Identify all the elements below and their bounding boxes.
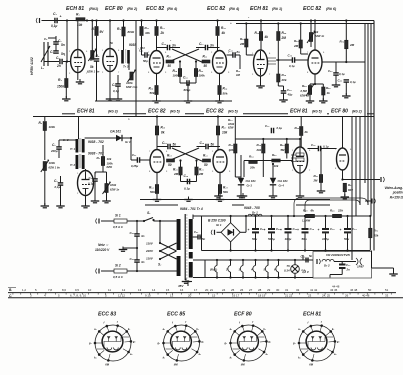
svg-text:32: 32 [296,288,300,292]
svg-text:50: 50 [368,288,372,292]
svg-text:44-48: 44-48 [332,285,340,289]
svg-text:26: 26 [240,288,244,292]
svg-text:50k: 50k [150,91,155,95]
svg-text:5n: 5n [202,237,206,241]
svg-text:200μ: 200μ [50,149,58,153]
svg-text:ECC 82: ECC 82 [146,6,164,12]
svg-text:g₂: g₂ [200,340,204,343]
svg-text:R₂₁: R₂₁ [199,168,204,172]
svg-text:R₁₉: R₁₉ [173,69,178,73]
svg-text:B 250 C100: B 250 C100 [208,219,226,223]
svg-text:2M: 2M [293,44,299,48]
svg-text:6ZW 1 lin: 6ZW 1 lin [87,70,100,74]
svg-text:OA 161: OA 161 [278,179,289,183]
svg-text:3n: 3n [141,234,145,238]
svg-text:800: 800 [348,188,353,192]
svg-text:15: 15 [166,288,170,292]
svg-text:50μ: 50μ [302,237,307,241]
svg-text:0,1μ: 0,1μ [184,187,190,191]
svg-text:10k: 10k [274,164,279,168]
svg-text:R₂₁: R₂₁ [203,55,208,59]
svg-text:28: 28 [258,288,262,292]
svg-text:VR 2000E01TVB: VR 2000E01TVB [326,253,350,257]
svg-text:1M: 1M [236,73,241,77]
svg-text:23: 23 [308,293,312,297]
svg-text:0,1μ: 0,1μ [277,126,283,130]
svg-text:15: 15 [212,293,216,297]
svg-text:6ZW 1n: 6ZW 1n [300,94,310,98]
svg-text:B.: B. [9,288,12,292]
svg-text:24: 24 [222,288,226,292]
svg-text:2: 2 [225,268,228,272]
svg-text:(Rö1): (Rö1) [210,268,217,272]
svg-text:1k: 1k [327,91,331,95]
svg-text:110/220 V: 110/220 V [95,248,110,252]
svg-text:a₁: a₁ [230,328,232,331]
svg-text:(Rö1): (Rö1) [89,7,99,11]
svg-text:17: 17 [194,288,198,292]
svg-text:40μ: 40μ [287,93,293,97]
svg-text:R₁₅: R₁₅ [161,126,166,130]
svg-text:R₄₈: R₄₈ [295,126,300,130]
svg-text:a₂: a₂ [130,353,132,356]
svg-text:R₂₄: R₂₄ [223,87,229,91]
svg-text:100k: 100k [110,183,117,187]
svg-text:ECH 81: ECH 81 [77,109,95,115]
svg-text:220V: 220V [145,249,154,253]
svg-text:ECC 85: ECC 85 [167,312,185,318]
svg-text:C₃₈: C₃₈ [352,227,357,231]
svg-text:13: 13 [138,288,142,292]
svg-text:R₂₅: R₂₅ [223,186,229,190]
svg-text:10k: 10k [107,157,112,161]
svg-text:50μ: 50μ [252,237,257,241]
svg-text:R₂₀: R₂₀ [173,168,179,172]
svg-text:g₁: g₁ [157,342,161,345]
svg-text:40-48: 40-48 [362,293,370,297]
svg-text:16: 16 [180,288,184,292]
svg-text:50k: 50k [223,92,228,96]
svg-text:OA 161: OA 161 [110,130,121,134]
svg-text:0,34: 0,34 [284,269,290,273]
svg-text:a₂: a₂ [334,353,336,356]
svg-text:25: 25 [231,288,235,292]
svg-text:27: 27 [249,288,253,292]
svg-text:Gr 1: Gr 1 [125,140,131,144]
svg-text:800k: 800k [128,30,135,34]
svg-text:6ZW 1n: 6ZW 1n [315,34,325,38]
svg-text:Si 1: Si 1 [115,214,121,218]
svg-text:ECH 81: ECH 81 [303,312,321,318]
svg-text:6ZW 1 lin: 6ZW 1 lin [49,166,61,170]
svg-text:100k: 100k [49,125,56,129]
svg-text:0,1μ: 0,1μ [350,80,356,84]
svg-text:Tr 1: Tr 1 [70,147,76,151]
svg-text:11: 11 [108,288,111,292]
svg-text:a₁: a₁ [94,328,96,331]
svg-text:k₁: k₁ [298,355,300,359]
svg-text:Netz ∼: Netz ∼ [98,243,109,247]
svg-text:1R67: 1R67 [357,265,364,269]
svg-text:0,5 A tr: 0,5 A tr [113,275,124,279]
svg-text:R₂₃: R₂₃ [199,69,205,73]
svg-text:51: 51 [385,288,389,292]
svg-text:3n: 3n [141,260,145,264]
svg-text:C₁₃: C₁₃ [162,42,167,46]
svg-text:1k: 1k [315,30,319,34]
svg-text:30k: 30k [145,31,150,35]
svg-text:5k: 5k [90,65,94,69]
svg-text:R₁₈: R₁₈ [167,154,172,158]
svg-text:+: + [280,228,282,232]
svg-text:(Rö 4): (Rö 4) [229,7,240,11]
svg-text:9038 - 703: 9038 - 703 [88,152,104,156]
svg-text:g₁: g₁ [224,342,228,345]
svg-text:26: 26 [345,293,349,297]
svg-text:(Rö 4): (Rö 4) [167,7,178,11]
svg-text:45V: 45V [177,284,184,288]
svg-text:6ZW 1n: 6ZW 1n [110,188,120,192]
svg-text:0,25μ: 0,25μ [131,164,138,168]
svg-text:9 10: 9 10 [145,293,151,297]
svg-text:4: 4 [250,268,253,272]
svg-text:4k: 4k [264,35,269,39]
svg-text:C₁₄: C₁₄ [162,141,167,145]
svg-text:Gr 3: Gr 3 [247,184,253,188]
svg-text:(Rö 2): (Rö 2) [127,7,138,11]
svg-text:8n: 8n [237,50,241,54]
svg-text:(Rö 5): (Rö 5) [170,110,180,114]
svg-text:9,5: 9,5 [75,288,79,292]
svg-text:C.: C. [9,294,12,298]
svg-text:C₃₄: C₃₄ [310,227,315,231]
svg-text:a₁: a₁ [163,328,165,331]
svg-text:7,8: 7,8 [48,288,52,292]
svg-text:C₄₁: C₄₁ [130,231,134,235]
svg-text:C₁₉: C₁₉ [183,76,188,80]
svg-text:2k: 2k [160,31,165,35]
svg-text:12: 12 [122,288,126,292]
svg-text:8,6: 8,6 [62,288,66,292]
svg-text:Gr 4: Gr 4 [279,184,285,188]
svg-text:R₃₄: R₃₄ [282,31,288,35]
svg-text:3n: 3n [172,44,176,48]
svg-text:Tr 2: Tr 2 [70,163,76,167]
svg-text:1,5/6W: 1,5/6W [302,219,311,223]
svg-text:50p: 50p [143,59,148,63]
svg-text:1,2: 1,2 [22,288,26,292]
svg-text:(Rö 5): (Rö 5) [228,110,238,114]
svg-text:C₂₆: C₂₆ [311,143,316,147]
svg-text:4k: 4k [221,31,226,35]
svg-text:k₂: k₂ [128,327,130,331]
svg-text:41 42: 41 42 [310,288,318,292]
svg-text:R₃₄: R₃₄ [249,155,254,159]
svg-text:5n: 5n [211,143,215,147]
svg-text:31: 31 [285,288,289,292]
svg-text:ECF 80: ECF 80 [234,312,252,318]
svg-text:100k: 100k [126,81,133,85]
svg-text:10k: 10k [222,131,228,135]
svg-text:22k: 22k [337,209,343,213]
svg-text:k₂: k₂ [332,327,334,331]
svg-text:(Rö 6): (Rö 6) [326,7,337,11]
svg-text:R₂₆: R₂₆ [221,26,227,30]
svg-text:6ZW: 6ZW [228,126,234,130]
svg-text:ECC 82: ECC 82 [207,6,225,12]
svg-text:R₁₁: R₁₁ [145,26,149,30]
svg-text:50: 50 [204,163,208,167]
svg-text:2M: 2M [313,179,319,183]
svg-text:100k: 100k [49,161,56,165]
svg-text:13: 13 [170,293,174,297]
svg-text:g₂: g₂ [132,340,136,343]
svg-text:Gl 1: Gl 1 [216,223,222,227]
svg-text:+: + [297,228,299,232]
svg-text:110V: 110V [146,242,154,246]
svg-text:HFBV 4102: HFBV 4102 [30,57,34,75]
svg-text:(Rö 5): (Rö 5) [312,110,322,114]
svg-text:k₁: k₁ [94,355,96,359]
svg-text:g₁: g₁ [292,342,296,345]
svg-text:ECC 82: ECC 82 [303,6,321,12]
svg-text:0,5M: 0,5M [301,89,308,93]
svg-text:30: 30 [276,288,280,292]
svg-text:ECC 83: ECC 83 [98,312,116,318]
svg-text:20k: 20k [249,166,255,170]
svg-text:33: 33 [385,293,389,297]
svg-text:0,1μ: 0,1μ [289,64,295,68]
svg-text:Rᵢ≈150 Ω: Rᵢ≈150 Ω [390,196,403,200]
svg-text:0,5 A tr: 0,5 A tr [113,225,124,229]
svg-text:ECH 81: ECH 81 [290,109,308,115]
svg-text:9048 - 705: 9048 - 705 [244,206,260,210]
svg-text:+: + [60,15,62,19]
svg-text:5n: 5n [309,254,313,258]
svg-text:Dr 2: Dr 2 [324,264,330,268]
svg-text:2M: 2M [173,172,179,176]
svg-text:50k: 50k [150,190,155,194]
svg-text:2k: 2k [304,130,309,134]
svg-text:24, 25: 24, 25 [322,293,330,297]
svg-text:2M: 2M [198,172,204,176]
svg-text:(Rö 2): (Rö 2) [352,110,362,114]
svg-text:L₁: L₁ [41,66,44,70]
svg-text:50: 50 [168,64,172,68]
svg-text:9038: 9038 [129,43,136,47]
svg-text:0,1μ: 0,1μ [323,145,329,149]
svg-text:C₁₆: C₁₆ [184,174,189,178]
svg-text:21 22: 21 22 [285,293,293,297]
svg-text:R₄₄: R₄₄ [302,84,307,88]
svg-text:0,1μ: 0,1μ [339,72,345,76]
svg-text:C₃₈: C₃₈ [288,54,293,58]
svg-text:150k: 150k [57,85,64,89]
svg-text:C₁₁: C₁₁ [132,153,136,157]
svg-text:9084 - 701 Tr 4: 9084 - 701 Tr 4 [180,207,203,211]
svg-text:20k: 20k [281,78,287,82]
svg-text:R₃₈: R₃₈ [257,143,262,147]
svg-text:ECF 80: ECF 80 [331,109,348,115]
svg-text:25k: 25k [373,234,379,238]
svg-text:2n: 2n [56,64,61,68]
svg-text:100k: 100k [173,74,180,78]
svg-text:Tr 3: Tr 3 [123,65,129,69]
svg-text:positiv: positiv [392,191,403,195]
svg-text:C₁₁: C₁₁ [139,49,143,53]
svg-text:50k: 50k [223,190,228,194]
svg-text:50μ: 50μ [344,237,349,241]
svg-text:4,8 V: 4,8 V [301,270,310,274]
svg-text:OA 161: OA 161 [246,179,257,183]
svg-text:R₂₈: R₂₈ [255,31,261,35]
svg-text:5n: 5n [173,143,177,147]
svg-text:0,1μ: 0,1μ [51,24,57,28]
svg-text:+: + [230,21,232,25]
svg-text:29: 29 [267,288,271,292]
svg-text:10: 10 [88,288,92,292]
svg-text:5M: 5M [281,148,286,152]
svg-text:8k: 8k [161,131,165,135]
svg-text:600p: 600p [184,88,191,92]
svg-text:R₁₆: R₁₆ [149,87,154,91]
svg-text:2n: 2n [346,268,351,272]
svg-text:ECC 82: ECC 82 [148,109,166,115]
svg-text:(Rö 3): (Rö 3) [108,110,118,114]
svg-text:46 48: 46 48 [350,288,358,292]
svg-text:k₁: k₁ [163,355,165,359]
svg-text:R₁₃: R₁₃ [160,26,165,30]
svg-text:6, 7, 8, 9, 10: 6, 7, 8, 9, 10 [70,293,86,297]
svg-text:20k: 20k [256,148,262,152]
svg-text:110V: 110V [146,257,154,261]
svg-text:2M: 2M [239,42,245,46]
svg-text:g₂: g₂ [336,340,340,343]
svg-text:ECH 81: ECH 81 [66,6,84,12]
svg-text:+: + [340,228,342,232]
svg-text:16 17: 16 17 [232,293,240,297]
svg-text:14: 14 [152,288,156,292]
svg-text:Si 2: Si 2 [115,264,121,268]
svg-text:ECC 82: ECC 82 [206,109,224,115]
svg-text:k₂: k₂ [196,327,198,331]
svg-text:100k: 100k [199,74,206,78]
svg-text:R₉: R₉ [117,27,121,31]
svg-text:+: + [248,228,250,232]
svg-text:6k: 6k [311,209,315,213]
svg-text:9038 - 702: 9038 - 702 [88,140,104,144]
svg-text:0,1μ: 0,1μ [55,185,61,189]
svg-text:3n: 3n [210,44,214,48]
svg-text:20, 21: 20, 21 [205,288,213,292]
svg-text:(Rö 1): (Rö 1) [272,7,283,11]
svg-text:g₁: g₁ [88,342,92,345]
svg-text:g₂: g₂ [267,340,271,343]
svg-text:Video-Ausg.: Video-Ausg. [385,186,403,190]
svg-text:R₂₂: R₂₂ [203,154,209,158]
svg-text:6ZW: 6ZW [107,165,113,169]
svg-text:2M: 2M [349,43,355,47]
svg-text:2M: 2M [281,36,287,40]
svg-text:43 45: 43 45 [330,288,338,292]
svg-text:C₅₀: C₅₀ [194,230,198,234]
svg-text:+: + [318,228,320,232]
svg-text:18 19: 18 19 [258,293,266,297]
svg-text:50: 50 [168,163,172,167]
svg-text:k₂: k₂ [263,327,265,331]
svg-text:R₁₄: R₁₄ [149,186,154,190]
svg-text:50: 50 [204,64,208,68]
svg-text:ECF 80: ECF 80 [105,6,123,12]
svg-text:100k: 100k [107,162,114,166]
svg-text:C₁₈: C₁₈ [200,141,205,145]
svg-text:5n: 5n [61,43,65,47]
svg-text:a₂: a₂ [199,353,201,356]
svg-text:a₂: a₂ [266,353,268,356]
svg-text:ECH 81: ECH 81 [250,6,268,12]
svg-text:+: + [264,228,266,232]
svg-text:a₁: a₁ [298,328,300,331]
svg-text:k₁: k₁ [230,355,232,359]
svg-text:100k: 100k [228,122,235,126]
